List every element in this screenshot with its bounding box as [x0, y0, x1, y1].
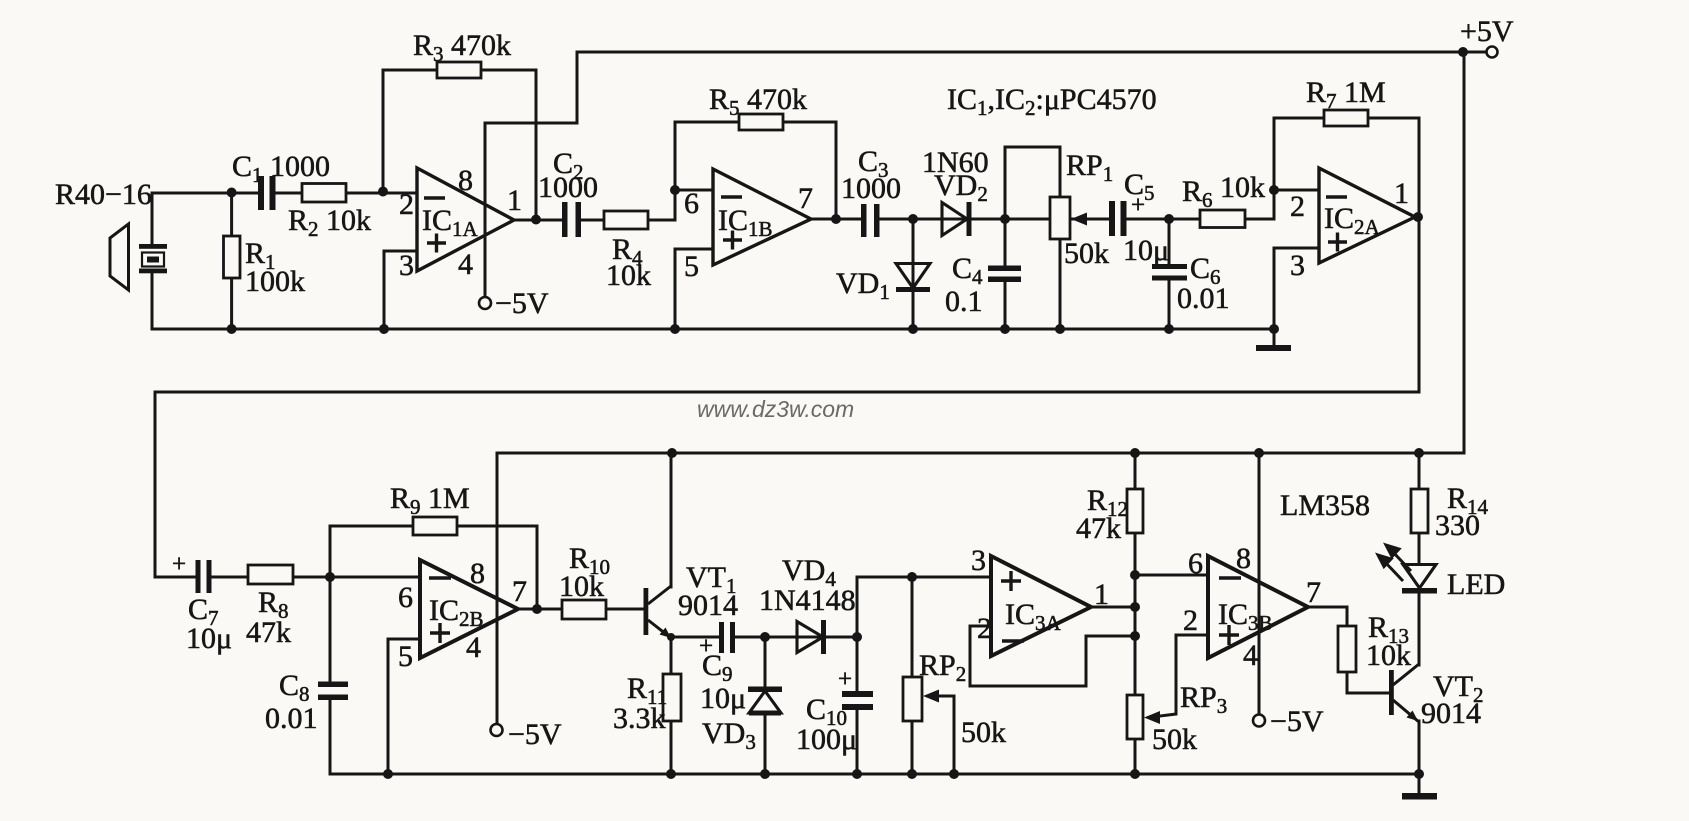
svg-text:9014: 9014: [678, 589, 738, 622]
svg-text:10μ: 10μ: [700, 682, 746, 715]
svg-text:10k: 10k: [559, 570, 604, 603]
svg-text:5: 5: [684, 250, 699, 283]
svg-text:50k: 50k: [961, 716, 1006, 749]
svg-text:−5V: −5V: [508, 718, 562, 751]
svg-text:2: 2: [977, 612, 992, 645]
svg-text:3.3k: 3.3k: [613, 702, 666, 735]
svg-text:100k: 100k: [245, 265, 305, 298]
svg-text:4: 4: [466, 631, 481, 664]
svg-text:1: 1: [507, 184, 522, 217]
svg-text:1N4148: 1N4148: [759, 584, 856, 617]
svg-text:9014: 9014: [1421, 697, 1481, 730]
svg-text:6: 6: [398, 581, 413, 614]
svg-text:10μ: 10μ: [1123, 234, 1169, 267]
svg-text:−5V: −5V: [1270, 705, 1324, 738]
svg-text:47k: 47k: [246, 616, 291, 649]
svg-text:7: 7: [512, 575, 527, 608]
svg-text:LM358: LM358: [1280, 489, 1370, 522]
svg-text:100μ: 100μ: [796, 723, 857, 756]
svg-text:2: 2: [399, 188, 414, 221]
svg-text:1: 1: [1094, 578, 1109, 611]
svg-text:8: 8: [470, 557, 485, 590]
svg-text:8: 8: [458, 164, 473, 197]
svg-text:1: 1: [1394, 177, 1409, 210]
svg-text:R2 10k: R2 10k: [288, 204, 371, 241]
svg-text:3: 3: [971, 544, 986, 577]
svg-text:1000: 1000: [538, 171, 598, 204]
svg-text:4: 4: [1243, 639, 1258, 672]
svg-text:2: 2: [1183, 604, 1198, 637]
svg-text:+5V: +5V: [1460, 15, 1514, 48]
svg-text:3: 3: [399, 249, 414, 282]
svg-text:+: +: [172, 551, 186, 578]
svg-text:−5V: −5V: [495, 287, 549, 320]
svg-text:10k: 10k: [1366, 639, 1411, 672]
svg-text:C1 1000: C1 1000: [232, 150, 330, 187]
svg-text:LED: LED: [1447, 568, 1505, 601]
svg-text:3: 3: [1290, 249, 1305, 282]
svg-text:5: 5: [398, 640, 413, 673]
svg-text:6: 6: [684, 187, 699, 220]
svg-text:8: 8: [1236, 542, 1251, 575]
svg-text:6: 6: [1188, 547, 1203, 580]
svg-text:10k: 10k: [606, 259, 651, 292]
svg-text:R9 1M: R9 1M: [390, 482, 470, 519]
svg-text:10μ: 10μ: [186, 622, 232, 655]
svg-text:www.dz3w.com: www.dz3w.com: [697, 396, 854, 422]
svg-text:R3 470k: R3 470k: [413, 29, 511, 66]
svg-text:0.1: 0.1: [945, 285, 983, 318]
svg-text:1000: 1000: [841, 172, 901, 205]
svg-text:50k: 50k: [1064, 237, 1109, 270]
svg-text:2: 2: [1290, 190, 1305, 223]
svg-text:0.01: 0.01: [265, 702, 318, 735]
svg-text:7: 7: [1306, 576, 1321, 609]
svg-text:4: 4: [458, 248, 473, 281]
svg-text:+: +: [1131, 192, 1145, 219]
svg-text:R5 470k: R5 470k: [709, 83, 807, 120]
svg-text:R40−16: R40−16: [55, 178, 152, 211]
svg-text:+: +: [838, 666, 852, 693]
svg-text:47k: 47k: [1076, 512, 1121, 545]
svg-text:0.01: 0.01: [1177, 282, 1230, 315]
svg-text:50k: 50k: [1152, 723, 1197, 756]
svg-text:R7 1M: R7 1M: [1306, 76, 1386, 113]
svg-text:7: 7: [798, 182, 813, 215]
svg-text:330: 330: [1435, 509, 1480, 542]
